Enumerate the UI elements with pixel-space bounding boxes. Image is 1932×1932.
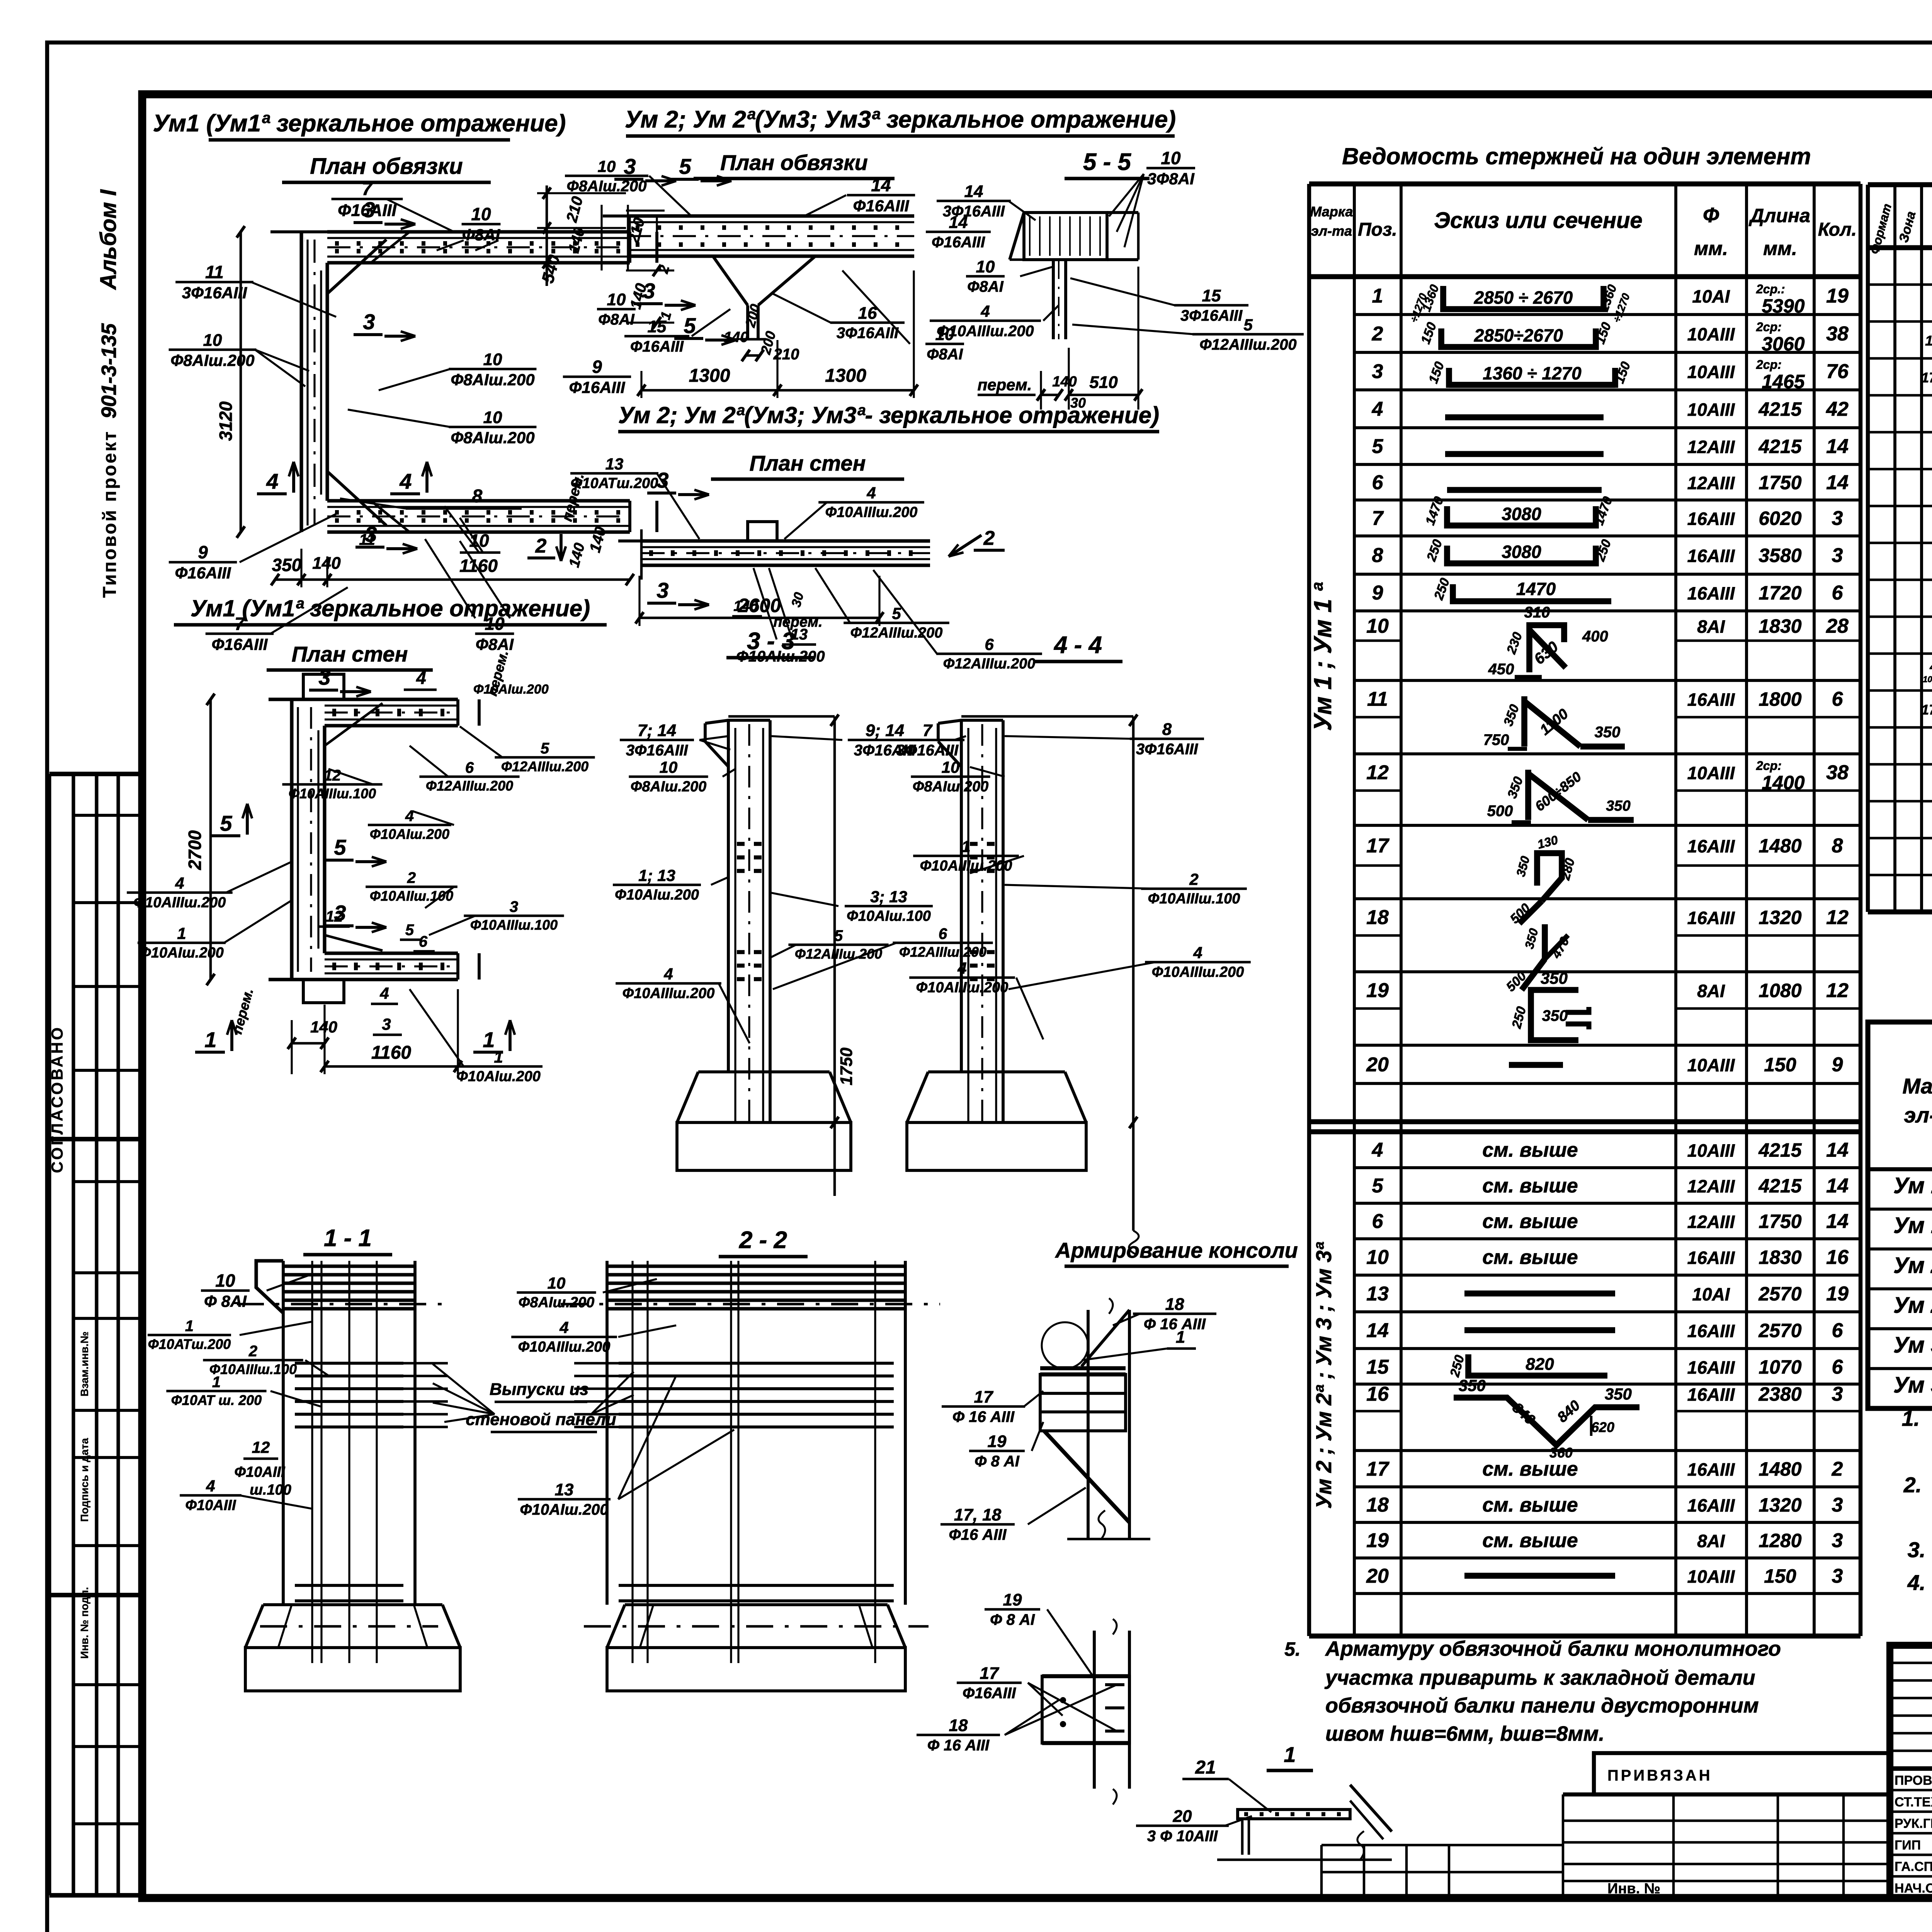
svg-text:Ф10АIIIш.100: Ф10АIIIш.100 (1148, 891, 1240, 907)
svg-text:10АIII: 10АIII (1687, 400, 1735, 420)
svg-text:Ф10АIIIш.200: Ф10АIIIш.200 (134, 895, 226, 911)
svg-text:1480: 1480 (1759, 835, 1801, 857)
svg-text:Ум 3ª: Ум 3ª (1893, 1372, 1932, 1398)
svg-text:ПРИВЯЗАН: ПРИВЯЗАН (1607, 1767, 1713, 1784)
svg-text:16АIII: 16АIII (1687, 1495, 1735, 1515)
svg-text:3: 3 (1832, 544, 1843, 567)
svg-text:2: 2 (248, 1343, 257, 1360)
svg-text:Ф8АI: Ф8АI (927, 346, 963, 363)
svg-text:Ф8АI: Ф8АI (476, 635, 514, 653)
svg-text:2700: 2700 (185, 830, 205, 870)
svg-text:6: 6 (1832, 1320, 1844, 1342)
svg-text:1: 1 (1372, 285, 1383, 307)
svg-text:Ф8АI: Ф8АI (967, 278, 1003, 295)
svg-text:12: 12 (252, 1438, 270, 1456)
svg-text:8АI: 8АI (1697, 981, 1725, 1001)
svg-text:ГА.СПЕЦ.: ГА.СПЕЦ. (1895, 1859, 1932, 1874)
svg-text:Выпуски из: Выпуски из (490, 1380, 588, 1399)
svg-text:3 Ф 10АIII: 3 Ф 10АIII (1147, 1828, 1218, 1845)
svg-text:10: 10 (598, 157, 616, 175)
svg-text:9: 9 (198, 542, 208, 562)
svg-text:17÷20: 17÷20 (1921, 702, 1932, 718)
svg-text:2 - 2: 2 - 2 (739, 1227, 787, 1253)
svg-text:12: 12 (1826, 980, 1849, 1002)
svg-text:1: 1 (212, 1374, 221, 1391)
svg-text:Ф12АIIIш.200: Ф12АIIIш.200 (1199, 336, 1296, 353)
svg-text:14: 14 (1826, 1175, 1849, 1197)
svg-text:9: 9 (592, 357, 602, 377)
svg-text:Ум 1ª: Ум 1ª (1893, 1213, 1932, 1238)
svg-text:1: 1 (494, 1048, 503, 1066)
svg-text:1750: 1750 (837, 1048, 856, 1085)
svg-text:20: 20 (1366, 1054, 1389, 1076)
svg-text:1070: 1070 (1759, 1356, 1801, 1378)
svg-text:2ср:: 2ср: (1756, 320, 1782, 334)
svg-text:3Ф16АIII: 3Ф16АIII (626, 742, 688, 759)
svg-text:1750: 1750 (1759, 1211, 1801, 1232)
svg-text:1: 1 (483, 1027, 495, 1052)
svg-text:5: 5 (1243, 316, 1253, 334)
svg-text:1160: 1160 (371, 1043, 412, 1063)
svg-text:1: 1 (961, 837, 970, 855)
svg-text:16: 16 (1366, 1383, 1389, 1405)
svg-text:Инв. № подл.: Инв. № подл. (78, 1587, 90, 1659)
svg-text:10: 10 (483, 408, 502, 427)
svg-text:3: 3 (656, 578, 668, 602)
svg-text:9: 9 (1832, 1054, 1843, 1076)
svg-text:12: 12 (1366, 762, 1389, 784)
svg-text:Ф 8 АI: Ф 8 АI (975, 1453, 1020, 1470)
svg-text:Альбом I: Альбом I (96, 189, 121, 291)
svg-text:14: 14 (1826, 1139, 1849, 1162)
svg-text:6: 6 (985, 635, 994, 653)
svg-text:12АIII: 12АIII (1687, 1212, 1735, 1232)
svg-text:Ф8АIш.200: Ф8АIш.200 (913, 779, 989, 795)
svg-text:3Ф16АIII: 3Ф16АIII (943, 203, 1005, 220)
svg-text:Поз.: Поз. (1358, 219, 1397, 240)
svg-text:План обвязки: План обвязки (310, 154, 463, 179)
svg-text:Ф 8АI: Ф 8АI (204, 1292, 247, 1310)
svg-text:18: 18 (1366, 906, 1389, 929)
svg-text:10,13÷16: 10,13÷16 (1923, 674, 1932, 684)
svg-text:140: 140 (724, 329, 748, 345)
svg-text:3: 3 (656, 468, 668, 492)
svg-text:2: 2 (1832, 1458, 1843, 1480)
svg-text:Ф16АIII: Ф16АIII (175, 564, 231, 582)
svg-text:3: 3 (643, 279, 655, 303)
svg-text:2: 2 (535, 535, 547, 557)
svg-text:Ум 1: Ум 1 (1893, 1173, 1932, 1198)
svg-text:12АIII: 12АIII (1687, 473, 1735, 493)
svg-text:5390: 5390 (1762, 295, 1804, 317)
svg-text:2: 2 (1372, 323, 1383, 345)
svg-text:Ум 2 ; Ум 2ª ; Ум 3 ; Ум: Ум 2 ; Ум 2ª ; Ум 3 ; Ум 3ª (1311, 1242, 1336, 1509)
svg-text:перем.: перем. (978, 376, 1032, 394)
svg-text:2: 2 (983, 527, 995, 549)
svg-text:1: 1 (1284, 1742, 1296, 1767)
svg-text:28: 28 (1826, 615, 1849, 638)
svg-text:1470: 1470 (1516, 579, 1556, 599)
svg-text:Ф10АIII: Ф10АIII (185, 1497, 236, 1514)
svg-text:350: 350 (272, 555, 302, 575)
svg-text:16АIII: 16АIII (1687, 690, 1735, 710)
svg-text:820: 820 (1526, 1355, 1554, 1374)
svg-text:Ф10АIш.200: Ф10АIш.200 (456, 1068, 541, 1085)
svg-text:2.: 2. (1903, 1473, 1922, 1497)
svg-text:Ум 2; Ум 2ª(Ум3; Ум3ª зеркальн: Ум 2; Ум 2ª(Ум3; Ум3ª зеркальное отражен… (625, 106, 1176, 133)
svg-text:10: 10 (485, 614, 505, 634)
svg-text:13: 13 (1366, 1283, 1389, 1305)
svg-text:16АIII: 16АIII (1687, 583, 1735, 604)
svg-text:Ф 16 АIII: Ф 16 АIII (1144, 1316, 1206, 1333)
svg-text:350: 350 (1459, 1376, 1486, 1395)
svg-text:6: 6 (1372, 1210, 1384, 1233)
svg-text:Марка: Марка (1310, 204, 1353, 219)
svg-text:см. выше: см. выше (1482, 1494, 1578, 1516)
svg-text:7: 7 (362, 179, 373, 199)
svg-text:План стен: План стен (292, 642, 408, 666)
svg-text:2: 2 (1189, 870, 1198, 888)
svg-text:обвязочной балки панели дв: обвязочной балки панели двусторонним (1325, 1694, 1759, 1717)
svg-text:10АIII: 10АIII (1687, 1566, 1735, 1587)
svg-text:3: 3 (624, 154, 636, 179)
svg-text:План стен: План стен (750, 451, 866, 475)
svg-text:16АIII: 16АIII (1687, 836, 1735, 856)
svg-text:6: 6 (939, 925, 947, 942)
svg-text:Ведомость стержней на один: Ведомость стержней на один элемент (1342, 143, 1811, 169)
svg-text:10АIII: 10АIII (1687, 763, 1735, 783)
svg-text:6: 6 (419, 933, 428, 950)
svg-text:Ум1 (Ум1ª зеркальное отражение: Ум1 (Ум1ª зеркальное отражение) (153, 110, 566, 137)
svg-text:4: 4 (980, 302, 990, 320)
svg-text:1080: 1080 (1759, 980, 1801, 1002)
svg-text:15: 15 (1366, 1356, 1389, 1378)
svg-text:2: 2 (407, 869, 416, 886)
svg-text:НАЧ.ОТД:: НАЧ.ОТД: (1895, 1881, 1932, 1896)
svg-text:План обвязки: План обвязки (720, 150, 868, 175)
svg-text:Ф16АIII: Ф16АIII (932, 234, 985, 251)
svg-text:5: 5 (405, 922, 414, 939)
svg-text:16АIII: 16АIII (1687, 1321, 1735, 1341)
svg-text:см. выше: см. выше (1482, 1529, 1578, 1552)
svg-text:12АIII: 12АIII (1687, 1176, 1735, 1196)
svg-text:4: 4 (663, 965, 673, 983)
svg-text:3: 3 (382, 1015, 391, 1033)
svg-text:16: 16 (1826, 1246, 1849, 1269)
svg-text:10: 10 (1366, 615, 1389, 638)
svg-text:5: 5 (220, 811, 232, 835)
svg-text:Подпись и дата: Подпись и дата (78, 1438, 90, 1522)
svg-text:19: 19 (1366, 1529, 1389, 1552)
svg-text:см. выше: см. выше (1482, 1175, 1578, 1197)
svg-text:1 - 1: 1 - 1 (324, 1225, 372, 1252)
svg-text:эл-та: эл-та (1311, 223, 1352, 239)
svg-text:Ф16АIII: Ф16АIII (853, 197, 910, 215)
svg-text:13: 13 (605, 455, 624, 473)
svg-text:3580: 3580 (1759, 545, 1801, 566)
svg-text:4215: 4215 (1758, 398, 1802, 420)
svg-text:14: 14 (1826, 471, 1849, 494)
svg-text:8: 8 (1832, 835, 1843, 857)
svg-text:СТ.ТЕХН.: СТ.ТЕХН. (1895, 1795, 1932, 1810)
svg-text:16АIII: 16АIII (1687, 1248, 1735, 1268)
svg-text:21: 21 (1195, 1757, 1216, 1778)
svg-text:6: 6 (1832, 582, 1844, 604)
svg-text:Ф10АIш.200: Ф10АIш.200 (139, 945, 224, 961)
svg-text:1320: 1320 (1759, 907, 1801, 929)
svg-text:30: 30 (1070, 395, 1086, 411)
svg-text:19: 19 (1826, 285, 1849, 307)
svg-text:3Ф8АI: 3Ф8АI (1147, 170, 1195, 188)
svg-text:Ф 16 АIII: Ф 16 АIII (952, 1408, 1015, 1425)
svg-text:3Ф16АIII: 3Ф16АIII (1180, 307, 1243, 324)
svg-text:мм.: мм. (1763, 238, 1797, 259)
svg-text:350: 350 (1606, 798, 1630, 814)
svg-text:4: 4 (405, 808, 414, 825)
svg-text:10АIII: 10АIII (1687, 324, 1735, 344)
svg-text:17: 17 (1366, 1458, 1389, 1480)
svg-text:1: 1 (204, 1027, 216, 1052)
svg-text:510: 510 (1089, 373, 1118, 392)
svg-text:3: 3 (363, 197, 375, 222)
svg-text:Ф10АIIIш.200: Ф10АIIIш.200 (920, 858, 1012, 874)
svg-text:17: 17 (980, 1664, 1000, 1683)
svg-text:5: 5 (1372, 1175, 1384, 1197)
svg-text:17÷20: 17÷20 (1921, 369, 1932, 385)
svg-text:Ф10АТш.200: Ф10АТш.200 (148, 1336, 231, 1352)
svg-text:Ф 16 АIII: Ф 16 АIII (927, 1737, 990, 1754)
svg-text:10: 10 (607, 290, 626, 309)
svg-text:3: 3 (510, 898, 518, 915)
svg-text:1830: 1830 (1759, 616, 1801, 637)
svg-text:Ум1 (Ум1ª зеркальное отражение: Ум1 (Ум1ª зеркальное отражение) (190, 595, 590, 621)
svg-text:11: 11 (205, 262, 224, 282)
svg-text:12АIII: 12АIII (1687, 437, 1735, 457)
svg-text:СОГЛАСОВАНО: СОГЛАСОВАНО (48, 1026, 66, 1173)
svg-text:мм.: мм. (1694, 238, 1728, 259)
svg-text:3120: 3120 (216, 401, 236, 441)
svg-text:10: 10 (215, 1270, 235, 1291)
svg-text:2600: 2600 (738, 595, 781, 616)
svg-text:8АI: 8АI (1697, 1531, 1725, 1551)
svg-text:14: 14 (1826, 1210, 1849, 1233)
svg-text:7: 7 (923, 721, 933, 740)
svg-text:Ф10АIIIш.100: Ф10АIIIш.100 (470, 917, 558, 933)
svg-text:см. выше: см. выше (1482, 1139, 1578, 1162)
svg-text:1800: 1800 (1759, 689, 1801, 710)
svg-text:4215: 4215 (1758, 1139, 1802, 1161)
svg-text:42: 42 (1826, 398, 1849, 420)
svg-text:Ф10АIII: Ф10АIII (234, 1464, 285, 1480)
svg-text:8: 8 (472, 486, 483, 507)
svg-text:Ф10АIIIш.200: Ф10АIIIш.200 (518, 1339, 611, 1355)
svg-text:38: 38 (1826, 323, 1849, 345)
svg-text:Ф8АIш.200: Ф8АIш.200 (170, 351, 254, 369)
svg-text:8: 8 (1372, 544, 1383, 567)
svg-text:14: 14 (1826, 435, 1849, 458)
svg-text:38: 38 (1826, 762, 1849, 784)
svg-text:3.: 3. (1908, 1537, 1926, 1562)
svg-text:350: 350 (1541, 969, 1568, 987)
svg-text:1; 13: 1; 13 (638, 866, 675, 884)
svg-text:Ф8АIш.200: Ф8АIш.200 (451, 371, 534, 389)
svg-text:Армирование консоли: Армирование консоли (1054, 1238, 1298, 1262)
svg-text:500: 500 (1487, 803, 1513, 820)
svg-text:18: 18 (1366, 1494, 1389, 1516)
svg-text:1÷12: 1÷12 (1925, 333, 1932, 349)
svg-text:6: 6 (465, 759, 474, 776)
svg-text:Ф10АТ ш. 200: Ф10АТ ш. 200 (171, 1392, 262, 1408)
svg-text:Эскиз или сечение: Эскиз или сечение (1434, 208, 1642, 233)
svg-text:Ф 8 АI: Ф 8 АI (990, 1611, 1035, 1628)
svg-text:5: 5 (684, 313, 696, 338)
svg-text:Ф10АIIIш.100: Ф10АIIIш.100 (209, 1361, 297, 1377)
svg-text:7; 14: 7; 14 (638, 721, 676, 740)
svg-text:2850÷2670: 2850÷2670 (1474, 325, 1563, 345)
svg-text:9: 9 (1372, 582, 1383, 604)
svg-text:400: 400 (1582, 628, 1608, 645)
svg-text:Ф16АIII: Ф16АIII (963, 1685, 1016, 1702)
svg-text:Ф10АIш.200: Ф10АIш.200 (520, 1501, 608, 1518)
svg-text:16АIII: 16АIII (1687, 509, 1735, 529)
svg-text:140: 140 (312, 554, 341, 573)
svg-text:19: 19 (1366, 980, 1389, 1002)
svg-text:15: 15 (1202, 286, 1221, 305)
svg-text:Ф8АI: Ф8АI (598, 311, 634, 328)
svg-text:150: 150 (1764, 1565, 1796, 1587)
svg-text:310: 310 (1524, 604, 1550, 621)
svg-text:3: 3 (1832, 507, 1843, 530)
svg-text:3: 3 (318, 665, 330, 689)
svg-text:Ф16АIII: Ф16АIII (569, 378, 626, 396)
svg-text:3Ф16АIII: 3Ф16АIII (837, 325, 899, 342)
svg-text:1160: 1160 (459, 556, 498, 576)
svg-text:16АIII: 16АIII (1687, 546, 1735, 566)
svg-text:2850 ÷ 2670: 2850 ÷ 2670 (1474, 287, 1573, 308)
svg-text:7: 7 (235, 614, 245, 634)
svg-text:14: 14 (964, 182, 983, 201)
svg-text:3080: 3080 (1502, 504, 1541, 524)
svg-text:4: 4 (416, 668, 426, 688)
svg-text:4: 4 (1372, 1139, 1383, 1162)
svg-text:15: 15 (648, 317, 667, 336)
svg-text:6020: 6020 (1759, 508, 1801, 529)
svg-text:1400: 1400 (1762, 772, 1804, 794)
svg-text:10: 10 (471, 204, 491, 224)
svg-text:19: 19 (988, 1432, 1007, 1451)
svg-text:Ф12АIIIш.200: Ф12АIIIш.200 (501, 759, 588, 774)
svg-text:4215: 4215 (1758, 436, 1802, 457)
svg-text:Ф10АIIIш.200: Ф10АIIIш.200 (622, 985, 715, 1002)
svg-text:8: 8 (1162, 720, 1172, 739)
svg-text:Ф10АIIIш.100: Ф10АIIIш.100 (289, 786, 376, 801)
svg-text:3: 3 (1372, 361, 1383, 383)
svg-text:2ср:: 2ср: (1756, 358, 1782, 372)
svg-text:4: 4 (175, 874, 184, 892)
svg-text:76: 76 (1826, 361, 1849, 383)
svg-text:1465: 1465 (1762, 371, 1805, 393)
svg-text:10АI: 10АI (1692, 286, 1730, 306)
svg-text:1360 ÷ 1270: 1360 ÷ 1270 (1483, 363, 1582, 383)
svg-text:Ф12АIIIш.200: Ф12АIIIш.200 (426, 778, 513, 794)
svg-text:Ф10АIш.200: Ф10АIш.200 (736, 648, 825, 665)
svg-text:10: 10 (976, 257, 995, 276)
svg-text:140: 140 (1052, 374, 1077, 390)
svg-text:10: 10 (483, 350, 502, 369)
svg-text:Ф10АIIIш.200: Ф10АIIIш.200 (916, 980, 1009, 996)
svg-text:16АIII: 16АIII (1687, 1459, 1735, 1480)
svg-text:14: 14 (1366, 1320, 1389, 1342)
svg-text:3Ф16АIII: 3Ф16АIII (896, 742, 959, 759)
svg-text:3: 3 (365, 522, 377, 546)
svg-text:Ф10АIIIш.200: Ф10АIIIш.200 (825, 504, 918, 520)
svg-text:5 - 5: 5 - 5 (1083, 149, 1132, 175)
svg-text:1720: 1720 (1759, 582, 1801, 604)
svg-text:4: 4 (266, 469, 278, 493)
svg-text:16АIII: 16АIII (1687, 1384, 1735, 1405)
svg-text:16АIII: 16АIII (1687, 1357, 1735, 1378)
svg-text:10: 10 (660, 758, 678, 776)
svg-text:3060: 3060 (1762, 333, 1804, 355)
svg-text:Ф10АIIIш.200: Ф10АIIIш.200 (937, 323, 1034, 340)
svg-text:участка приварить к закладн: участка приварить к закладной детали (1324, 1666, 1755, 1689)
svg-text:19: 19 (1826, 1283, 1849, 1305)
svg-text:1: 1 (1176, 1328, 1185, 1347)
svg-text:2570: 2570 (1758, 1283, 1801, 1305)
svg-text:РУК.ГР.: РУК.ГР. (1895, 1816, 1932, 1831)
svg-text:4: 4 (1193, 944, 1202, 962)
svg-text:ГИП: ГИП (1895, 1838, 1921, 1852)
svg-text:4.: 4. (1907, 1570, 1926, 1595)
svg-text:10: 10 (1366, 1246, 1389, 1269)
svg-text:750: 750 (1483, 731, 1509, 748)
svg-text:1: 1 (185, 1318, 194, 1335)
svg-text:4: 4 (957, 959, 966, 977)
svg-text:10: 10 (942, 758, 960, 776)
svg-text:7: 7 (1372, 507, 1384, 530)
svg-text:5.: 5. (1284, 1638, 1301, 1660)
svg-text:3: 3 (334, 901, 346, 925)
svg-text:Ф16АIII: Ф16АIII (212, 635, 268, 653)
svg-text:Ф10АIш.100: Ф10АIш.100 (847, 908, 931, 924)
svg-text:Ф10АIш.200: Ф10АIш.200 (473, 682, 549, 697)
svg-text:3Ф16АIII: 3Ф16АIII (182, 284, 248, 302)
svg-text:3: 3 (1832, 1383, 1843, 1405)
svg-text:Типовой проект: Типовой проект (100, 430, 120, 598)
svg-text:Ф8АIш.200: Ф8АIш.200 (519, 1294, 595, 1311)
svg-text:16АIII: 16АIII (1687, 908, 1735, 928)
svg-text:2380: 2380 (1758, 1383, 1801, 1405)
svg-text:1320: 1320 (1759, 1494, 1801, 1516)
svg-text:5: 5 (892, 604, 901, 622)
svg-text:5: 5 (334, 835, 346, 859)
svg-text:Арматуру обвязочной балки м: Арматуру обвязочной балки монолитного (1325, 1637, 1781, 1660)
svg-text:14: 14 (871, 175, 891, 195)
svg-text:10АIII: 10АIII (1687, 362, 1735, 382)
svg-text:Ф10АIш.200: Ф10АIш.200 (615, 887, 699, 903)
svg-text:ш.100: ш.100 (250, 1482, 291, 1498)
svg-text:Ум 1 ; Ум 1 ª: Ум 1 ; Ум 1 ª (1309, 582, 1337, 731)
svg-text:4215: 4215 (1758, 1175, 1802, 1197)
svg-text:Ф12АIIIш.200: Ф12АIIIш.200 (850, 625, 943, 641)
svg-text:Ф16 АIII: Ф16 АIII (949, 1526, 1007, 1543)
svg-text:3Ф16АIII: 3Ф16АIII (1136, 741, 1198, 758)
svg-text:6: 6 (1832, 1356, 1844, 1378)
svg-text:см. выше: см. выше (1482, 1210, 1578, 1233)
svg-text:1300: 1300 (825, 366, 866, 386)
svg-text:5: 5 (834, 927, 843, 944)
svg-text:Ф12АIIIш.200: Ф12АIIIш.200 (943, 656, 1036, 672)
